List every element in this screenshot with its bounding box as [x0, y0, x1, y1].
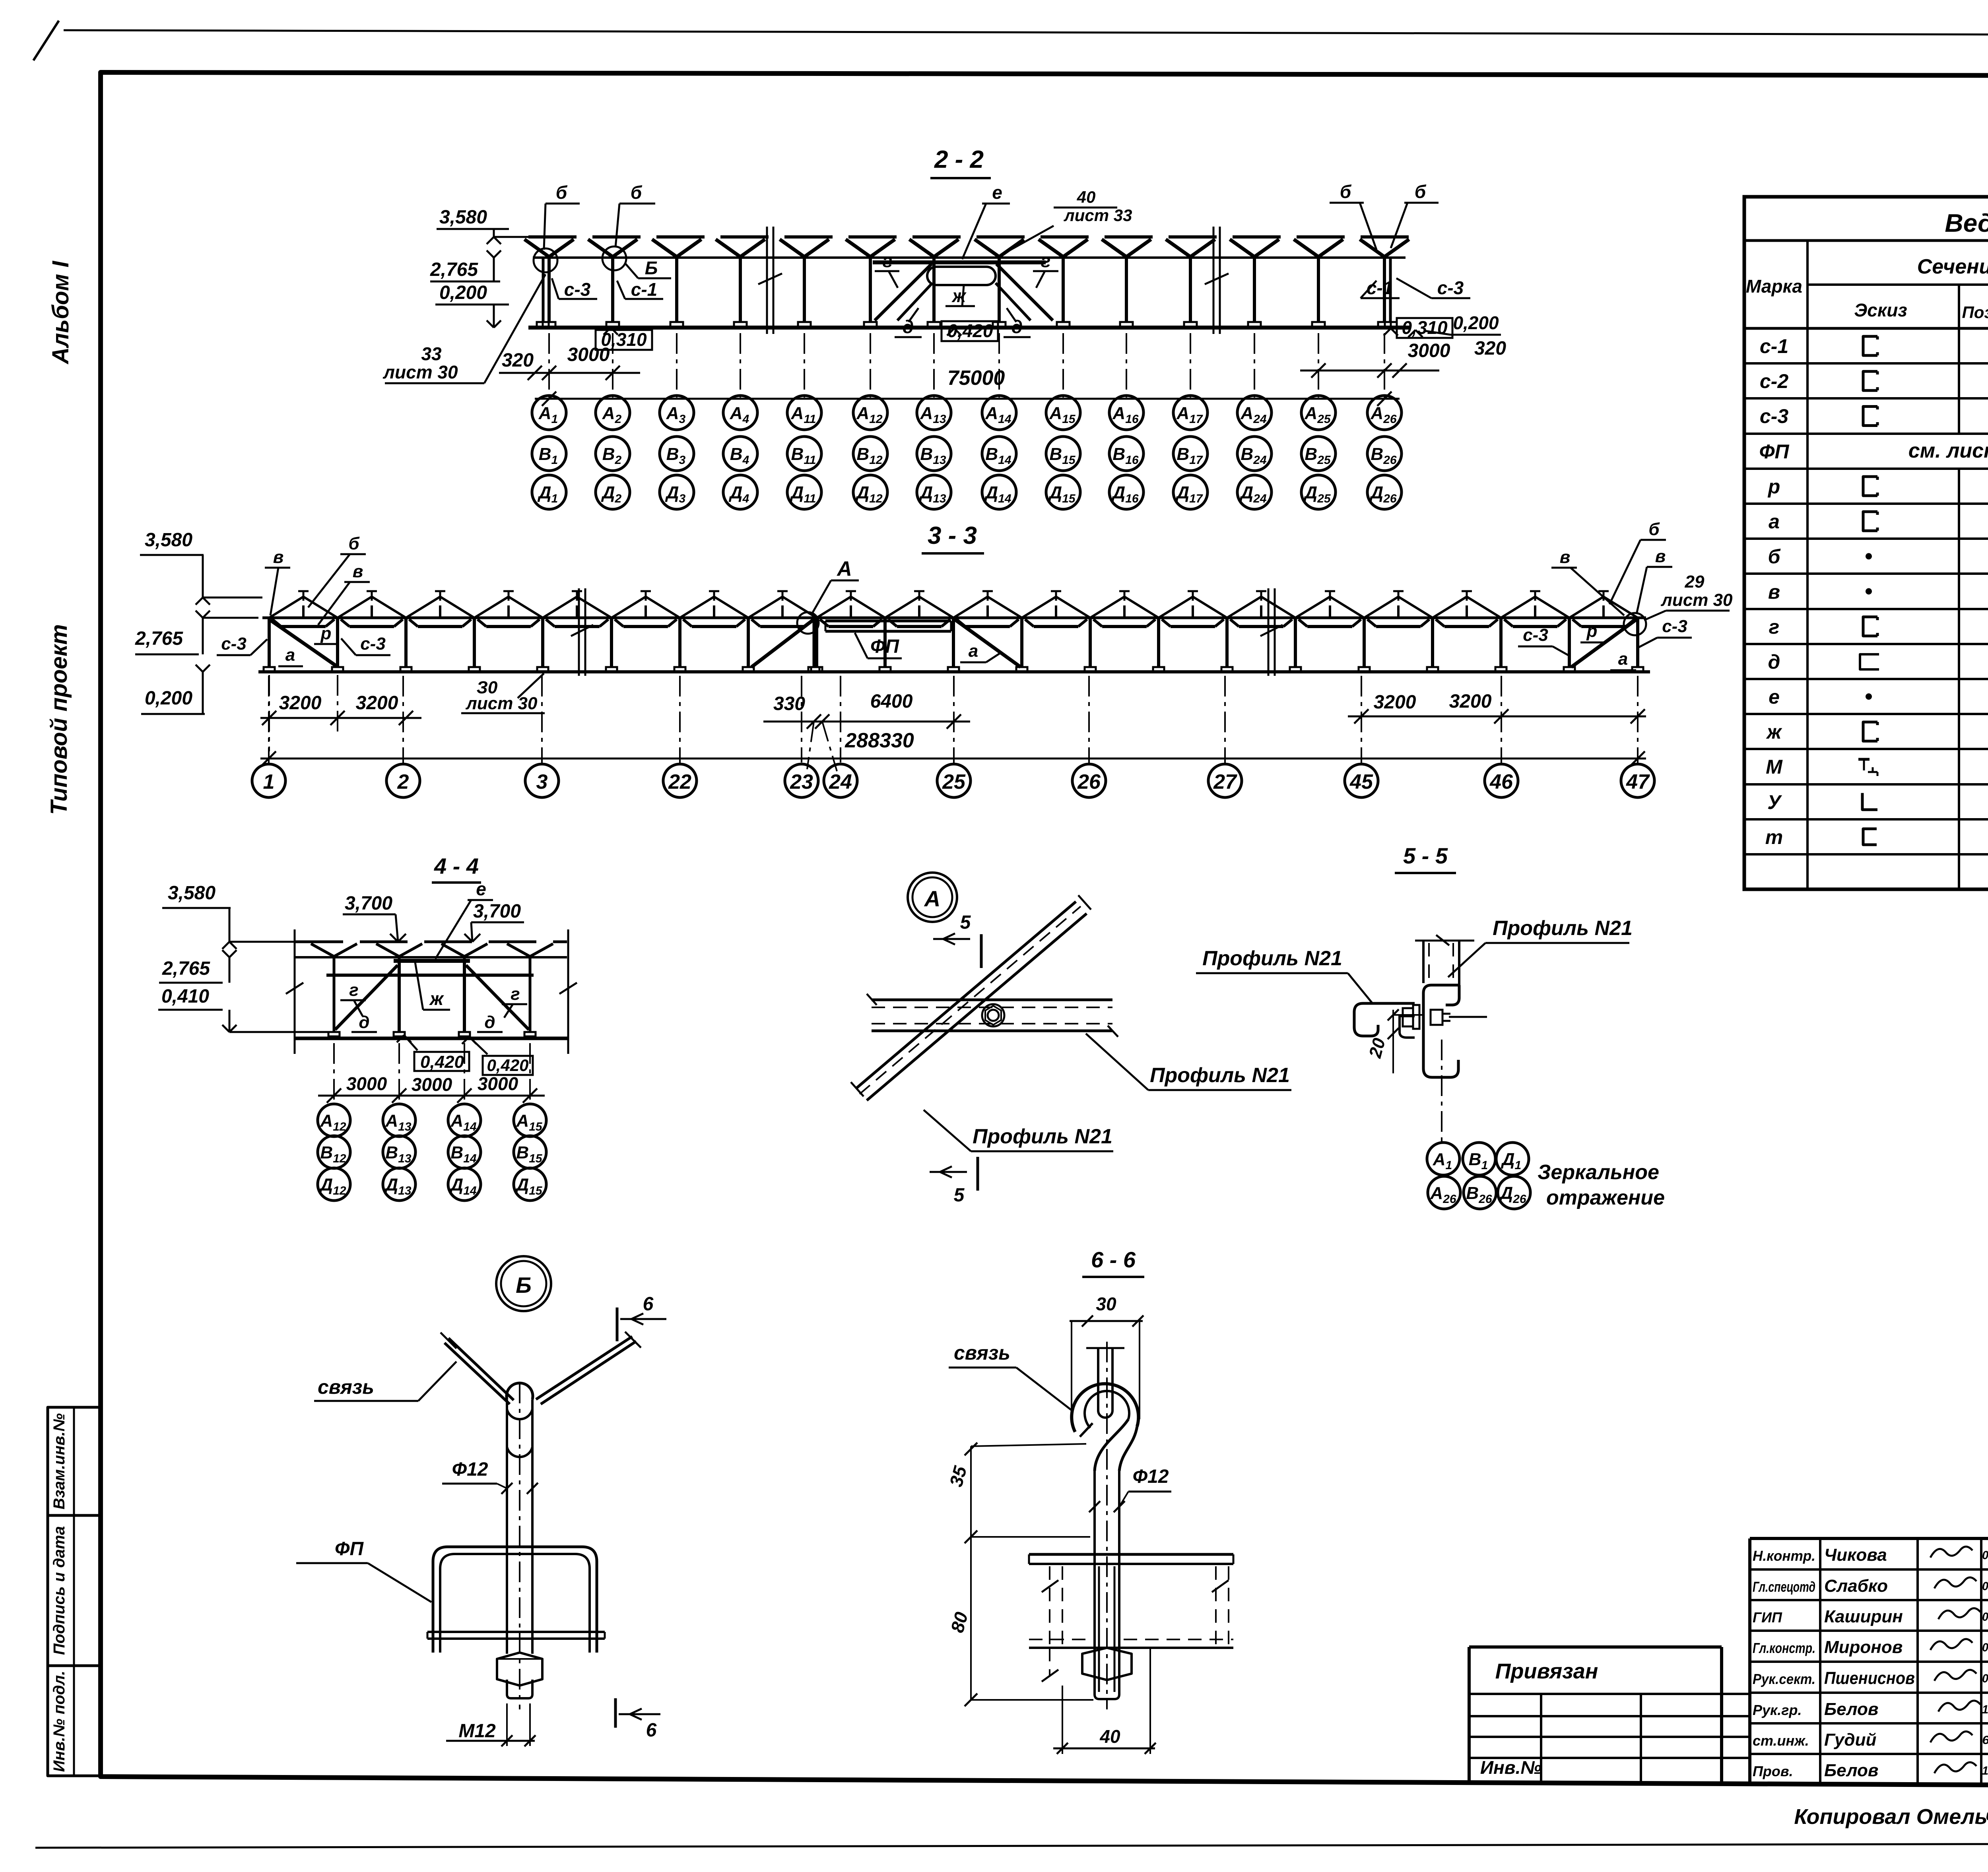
scan edge bottom line: [35, 1843, 1988, 1848]
svg-text:Инв.№ подл.: Инв.№ подл.: [50, 1671, 68, 1772]
section 4-4 elevation dim 3.580: [162, 883, 295, 949]
svg-text:ФП: ФП: [1759, 440, 1790, 463]
note kopiroval: [1794, 1805, 1988, 1829]
svg-text:08.06.83: 08.06.83: [1982, 1641, 1988, 1654]
svg-text:Каширин: Каширин: [1824, 1607, 1903, 1626]
section 6-6 dim 40: [1053, 1647, 1156, 1754]
svg-text:01.11.83: 01.11.83: [1982, 1549, 1988, 1562]
svg-text:лист 33: лист 33: [1064, 206, 1132, 225]
svg-text:1: 1: [263, 770, 275, 793]
section 2-2 label s-3 right: [1396, 277, 1470, 298]
section 5-5 label: [1395, 843, 1456, 873]
svg-text:3 - 3: 3 - 3: [928, 522, 977, 549]
svg-text:2 - 2: 2 - 2: [934, 146, 984, 173]
svg-text:Ф12: Ф12: [452, 1459, 488, 1480]
element table row в: [1768, 581, 1988, 603]
svg-text:в: в: [1655, 547, 1666, 566]
section 4-4 dim 0.420 boxes: [397, 1035, 533, 1075]
svg-text:Подпись и дата: Подпись и дата: [50, 1526, 68, 1655]
svg-text:в: в: [353, 562, 363, 581]
svg-text:б: б: [1768, 545, 1781, 568]
svg-text:с-3: с-3: [1523, 625, 1548, 645]
svg-text:Альбом I: Альбом I: [48, 260, 74, 365]
section 2-2 label s-1 right: [1361, 277, 1400, 298]
svg-text:0,420: 0,420: [487, 1056, 528, 1075]
section 6-6 label: [1082, 1247, 1144, 1277]
svg-text:24: 24: [829, 770, 852, 793]
title block signature row Пров.: [1753, 1761, 1988, 1780]
svg-text:Миронов: Миронов: [1824, 1637, 1903, 1657]
svg-text:А: А: [836, 557, 852, 580]
svg-text:б: б: [1648, 520, 1660, 539]
svg-text:Чикова: Чикова: [1824, 1545, 1887, 1565]
section 6-6 clamp section: [1029, 1554, 1233, 1682]
section 5-5 bolt: [1403, 1005, 1450, 1029]
section 2-2 top chord: [528, 235, 1409, 239]
svg-text:Марка: Марка: [1746, 276, 1802, 297]
section 6-6 label svyaz: [949, 1342, 1072, 1410]
svg-text:М: М: [1766, 756, 1783, 778]
svg-text:в: в: [273, 547, 284, 567]
section 6-6 tie wire: [1086, 1348, 1124, 1418]
svg-text:33: 33: [421, 343, 442, 364]
title block signature table: [1750, 1538, 1988, 1785]
section 4-4 label e and dims 3.700: [343, 879, 524, 959]
margin text Album I: [48, 260, 74, 365]
stamp label Inv.No podl.: [50, 1671, 68, 1772]
svg-text:г: г: [511, 984, 520, 1004]
svg-text:д: д: [359, 1013, 369, 1032]
section 2-2 middle portal beam: [873, 260, 1046, 264]
svg-text:р: р: [1767, 475, 1780, 498]
svg-text:23: 23: [790, 770, 813, 793]
section 2-2 elevation dim 3.580: [437, 207, 530, 244]
svg-text:3,580: 3,580: [439, 207, 487, 228]
section 2-2 label s-1 left: [617, 279, 663, 300]
section 4-4 elevation dim 0.410: [158, 986, 330, 1032]
svg-text:а: а: [285, 645, 295, 665]
svg-text:25: 25: [942, 770, 966, 793]
detail B label FP: [296, 1538, 431, 1602]
section 3-3 dim 3200 3200 left: [260, 675, 421, 751]
svg-text:с-3: с-3: [564, 279, 591, 300]
svg-text:4 - 4: 4 - 4: [434, 854, 479, 879]
svg-text:д: д: [903, 316, 914, 337]
svg-text:Пров.: Пров.: [1753, 1763, 1793, 1779]
detail A section mark 5 bottom: [930, 1157, 978, 1206]
detail B nut: [497, 1653, 542, 1686]
svg-text:р: р: [320, 624, 332, 643]
title block signature row ГИП: [1753, 1607, 1988, 1626]
svg-text:16.05.83: 16.05.83: [1982, 1703, 1988, 1716]
svg-text:3: 3: [536, 770, 548, 793]
svg-text:6: 6: [643, 1294, 654, 1315]
section 5-5 dim 20: [1365, 1009, 1487, 1073]
svg-text:5: 5: [960, 912, 971, 933]
svg-text:Гл.спецотд: Гл.спецотд: [1753, 1579, 1815, 1595]
svg-text:Гл.констр.: Гл.констр.: [1753, 1640, 1815, 1656]
section 2-2 dim 0.310 right: [1384, 317, 1452, 338]
scan edge top line: [64, 30, 1988, 36]
svg-text:6 - 6: 6 - 6: [1091, 1247, 1136, 1272]
svg-text:3200: 3200: [1449, 691, 1492, 712]
section 3-3 node A callout: [797, 557, 859, 634]
section 4-4 elevation dim 2.765: [159, 950, 237, 983]
svg-text:3,700: 3,700: [345, 893, 392, 914]
svg-text:3000: 3000: [567, 344, 610, 365]
element table row с-1: [1760, 335, 1988, 357]
section 6-6 dim 35: [945, 1443, 1090, 1543]
section 4-4 portal frame: [394, 961, 470, 1032]
title block attachment box: [1469, 1647, 1750, 1784]
section 2-2 dim 0.200 right: [1408, 312, 1501, 337]
detail A diagonal member: [851, 895, 1091, 1100]
element table title: [1744, 209, 1988, 241]
svg-text:3,700: 3,700: [473, 901, 521, 922]
svg-text:Гудий: Гудий: [1824, 1730, 1876, 1750]
section 2-2 leader 33 list 30: [382, 274, 546, 383]
section 2-2 element zh capsule: [927, 267, 996, 285]
element table row г: [1769, 616, 1988, 638]
section 5-5 text mirror note: [1538, 1161, 1665, 1209]
section 2-2 label s-3 left: [552, 278, 597, 300]
section 3-3 label FP: [855, 633, 902, 658]
svg-text:связь: связь: [318, 1376, 374, 1398]
svg-text:09.06.83: 09.06.83: [1982, 1610, 1988, 1624]
section 2-2 label b right 2: [1391, 181, 1439, 248]
detail B clamp FP: [427, 1547, 605, 1653]
svg-text:29: 29: [1685, 572, 1705, 592]
svg-text:отражение: отражение: [1546, 1186, 1665, 1209]
section 4-4 dims 3000: [318, 1073, 545, 1103]
svg-text:е: е: [476, 879, 486, 899]
margin text Tipovoy proekt: [46, 624, 72, 815]
svg-text:ж: ж: [429, 988, 444, 1009]
section 2-2 columns: [537, 258, 1397, 327]
section 3-3 dim 330 6400 middle: [763, 691, 970, 729]
svg-text:Привязан: Привязан: [1495, 1659, 1598, 1683]
svg-text:2,765: 2,765: [430, 259, 478, 280]
svg-text:6: 6: [646, 1720, 657, 1741]
section 2-2 label b right 1: [1330, 181, 1376, 250]
svg-text:16.05.83: 16.05.83: [1982, 1764, 1988, 1777]
section 3-3 leader 30 list 30: [461, 673, 545, 713]
title block signature row Гл.констр.: [1753, 1637, 1988, 1657]
section 6-6 dim 30: [1070, 1294, 1143, 1419]
section 3-3 columns: [264, 618, 1643, 671]
svg-text:с-3: с-3: [221, 634, 247, 654]
svg-text:г: г: [349, 980, 358, 1000]
svg-text:0,200: 0,200: [439, 282, 487, 303]
detail A horizontal member: [867, 994, 1118, 1037]
svg-text:22: 22: [668, 770, 691, 793]
svg-text:с-1: с-1: [1760, 335, 1788, 357]
svg-text:д: д: [1011, 316, 1023, 337]
svg-text:Копировал Омельченко: Копировал Омельченко: [1794, 1805, 1988, 1829]
svg-text:а: а: [1769, 510, 1780, 533]
section 2-2 grid circles row D: [532, 475, 1402, 509]
element table header grid: [1744, 241, 1988, 889]
svg-text:лист 30: лист 30: [1660, 590, 1733, 610]
section 4-4 label d left: [351, 1013, 377, 1032]
svg-text:09.06.83: 09.06.83: [1982, 1580, 1988, 1593]
svg-text:Пшениснов: Пшениснов: [1824, 1668, 1915, 1688]
section 4-4 label zh: [415, 962, 450, 1010]
svg-text:г: г: [883, 250, 893, 271]
margin stamp boxes: [48, 1407, 101, 1776]
svg-text:в: в: [1560, 547, 1571, 567]
section 4-4 label g left: [340, 980, 366, 1016]
svg-text:Профиль N21: Профиль N21: [973, 1125, 1112, 1148]
section 6-6 dim f12: [1089, 1466, 1171, 1512]
section 2-2 V-braces: [524, 239, 1409, 257]
svg-text:3000: 3000: [412, 1074, 452, 1095]
svg-text:д: д: [1768, 651, 1780, 673]
section 2-2 base line: [528, 326, 1409, 330]
element table row д: [1768, 651, 1988, 673]
section 2-2 label: [930, 146, 991, 178]
svg-text:Слабко: Слабко: [1824, 1576, 1888, 1596]
section 4-4 grid centerlines: [334, 1043, 530, 1105]
section 2-2 dim row 320 3000 left: [499, 344, 640, 380]
section 4-4 V-braces: [311, 944, 553, 956]
section 6-6 hook: [1072, 1384, 1138, 1471]
svg-text:ФП: ФП: [870, 636, 899, 657]
svg-text:ж: ж: [1766, 721, 1782, 743]
section 4-4 break marks: [286, 929, 577, 1054]
svg-text:ФП: ФП: [335, 1538, 364, 1560]
svg-text:3000: 3000: [1408, 340, 1450, 361]
svg-text:3200: 3200: [1374, 692, 1416, 713]
svg-text:А: А: [924, 886, 940, 911]
svg-text:с-3: с-3: [1662, 617, 1687, 636]
section 2-2 overall dim 75000: [535, 367, 1400, 406]
section 4-4 eave chord: [295, 956, 567, 958]
section 5-5 centerline: [1441, 1040, 1442, 1145]
element table row ФП: [1759, 439, 1988, 463]
svg-text:т: т: [1765, 826, 1783, 848]
svg-text:320: 320: [1474, 338, 1506, 359]
svg-text:06.06.83: 06.06.83: [1982, 1672, 1988, 1685]
section 2-2 break marks: [758, 227, 1229, 334]
title block signature row ст.инж.: [1753, 1730, 1988, 1750]
section 2-2 portal diagonals: [875, 264, 1053, 320]
stamp label Podpis i data: [50, 1526, 68, 1655]
svg-text:0,200: 0,200: [1453, 312, 1499, 333]
section 2-2 dim 0.310 left: [596, 328, 652, 350]
svg-text:288330: 288330: [845, 729, 914, 752]
detail B rod: [507, 1383, 532, 1709]
detail A bolt: [982, 1004, 1004, 1026]
section 2-2 elevation dim 2.765: [430, 250, 501, 281]
svg-text:6400: 6400: [870, 691, 913, 712]
detail A label Profil N21 lower: [924, 1110, 1113, 1151]
section 4-4 tie beam: [326, 974, 534, 977]
section 3-3 elevation dim 3.580: [140, 530, 262, 605]
detail B callout circle: [496, 1256, 551, 1311]
element table row с-3: [1760, 405, 1988, 427]
svg-text:45: 45: [1349, 770, 1373, 793]
svg-text:3,580: 3,580: [168, 883, 215, 904]
svg-text:с-3: с-3: [1437, 277, 1464, 298]
element table row р: [1767, 475, 1988, 498]
section 4-4 columns: [328, 957, 536, 1036]
section 3-3 overall dim 288330: [260, 729, 1646, 766]
stamp label Vzam.inv.No: [50, 1413, 68, 1509]
svg-text:46: 46: [1489, 770, 1513, 793]
svg-text:Белов: Белов: [1824, 1699, 1878, 1719]
svg-text:Рук.гр.: Рук.гр.: [1753, 1702, 1802, 1718]
svg-text:0,410: 0,410: [161, 986, 209, 1007]
svg-text:320: 320: [502, 350, 534, 371]
svg-text:Эскиз: Эскиз: [1854, 300, 1907, 320]
svg-text:47: 47: [1626, 770, 1650, 793]
detail B section mark 6 bottom: [615, 1698, 660, 1741]
element table row а: [1769, 510, 1988, 533]
svg-text:3200: 3200: [356, 693, 398, 714]
svg-text:Н.контр.: Н.контр.: [1753, 1548, 1815, 1564]
section 5-5 label Profil N21 left: [1196, 947, 1373, 1003]
section 5-5 label Profil N21 right: [1448, 917, 1633, 977]
svg-text:40: 40: [1077, 188, 1096, 206]
svg-text:Ведомость элементов: Ведомость элементов: [1945, 209, 1988, 237]
svg-text:с-3: с-3: [360, 634, 386, 654]
element table row М: [1766, 756, 1988, 778]
section 4-4 grid circles: [318, 1104, 546, 1201]
section 5-5 channel C right: [1423, 985, 1459, 1077]
svg-text:3200: 3200: [279, 693, 322, 714]
detail A callout circle: [908, 873, 957, 922]
section 4-4 label g right: [502, 984, 527, 1018]
section 2-2 label g right: [1033, 250, 1058, 288]
svg-text:0,310: 0,310: [1402, 317, 1448, 338]
section 4-4 label: [432, 854, 481, 883]
svg-text:е: е: [992, 182, 1002, 203]
svg-text:Профиль N21: Профиль N21: [1493, 917, 1633, 940]
svg-text:2,765: 2,765: [135, 628, 183, 649]
svg-text:Белов: Белов: [1824, 1761, 1878, 1780]
svg-text:связь: связь: [954, 1342, 1010, 1364]
section 2-2 eave chord: [533, 256, 1406, 259]
svg-text:лист 30: лист 30: [465, 694, 538, 713]
svg-text:Ф12: Ф12: [1133, 1466, 1169, 1487]
detail B rod loop: [507, 1383, 533, 1399]
element table row ж: [1766, 721, 1988, 743]
section 2-2 label g left: [875, 250, 899, 288]
svg-text:ст.инж.: ст.инж.: [1753, 1732, 1809, 1749]
section 2-2 label d left: [895, 308, 922, 337]
section 2-2 dim row 3000 320 right: [1300, 338, 1506, 378]
svg-text:0,420: 0,420: [420, 1052, 464, 1072]
section 4-4 top chord: [295, 941, 567, 943]
svg-text:б: б: [1340, 181, 1352, 202]
svg-text:Сечение: Сечение: [1917, 255, 1988, 278]
section 3-3 FP sub-truss band: [825, 621, 951, 631]
svg-text:с-2: с-2: [1760, 370, 1788, 392]
element table row е: [1769, 686, 1988, 708]
svg-text:лист 30: лист 30: [382, 362, 458, 382]
svg-text:2,765: 2,765: [162, 958, 210, 979]
element table column lines body: [1959, 328, 1988, 889]
svg-text:0,200: 0,200: [145, 688, 192, 709]
section 3-3 ground line: [258, 670, 1650, 673]
scan corner slash top-left: [33, 21, 59, 60]
svg-text:д: д: [484, 1013, 495, 1032]
svg-text:75000: 75000: [947, 367, 1005, 390]
svg-text:Профиль N21: Профиль N21: [1150, 1064, 1290, 1087]
section 2-2 dim 0.420 middle: [942, 320, 998, 341]
svg-text:р: р: [1586, 621, 1598, 641]
svg-text:Поз.: Поз.: [1962, 303, 1988, 322]
svg-text:5 - 5: 5 - 5: [1403, 843, 1448, 868]
section 3-3 break marks: [571, 588, 1283, 676]
svg-text:3000: 3000: [346, 1073, 387, 1094]
element table outer border: [1744, 197, 1988, 889]
section 2-2 label d right: [1004, 308, 1031, 337]
section 3-3 label a mid: [960, 641, 1002, 662]
svg-text:б: б: [631, 182, 643, 203]
svg-text:Взам.инв.№: Взам.инв.№: [50, 1413, 68, 1509]
section 3-3 grid centerlines: [269, 676, 1638, 771]
svg-text:Инв.№: Инв.№: [1480, 1757, 1541, 1778]
element table row У: [1767, 791, 1988, 813]
svg-text:У: У: [1767, 791, 1782, 813]
svg-text:с-1: с-1: [631, 279, 657, 300]
detail B Y arms: [441, 1332, 641, 1404]
svg-text:ГИП: ГИП: [1753, 1609, 1782, 1626]
title block signature row Рук.сект.: [1753, 1668, 1988, 1688]
section 3-3 grid circles: [252, 764, 1654, 797]
section 2-2 node callout circles: [534, 246, 626, 272]
detail B section mark 6 top: [617, 1294, 666, 1341]
svg-text:40: 40: [1099, 1726, 1120, 1747]
section 3-3 brace diagonals: [270, 619, 1637, 667]
title block signature row Н.контр.: [1753, 1545, 1988, 1565]
section 2-2 label B callout: [625, 258, 671, 278]
section 6-6 rod: [1095, 1342, 1119, 1709]
svg-text:б: б: [1415, 181, 1427, 202]
svg-text:Рук.сект.: Рук.сект.: [1753, 1671, 1815, 1687]
section 4-4 diagonals: [335, 965, 529, 1030]
detail B dim M12: [446, 1703, 536, 1746]
svg-text:0,420: 0,420: [947, 320, 993, 341]
svg-text:см. лист КМ-17: см. лист КМ-17: [1908, 439, 1988, 462]
element table row с-2: [1760, 370, 1988, 392]
section 3-3 dim 3200 3200 right: [1348, 691, 1646, 724]
svg-text:а: а: [969, 641, 978, 661]
section 3-3 labels right end: [1518, 520, 1733, 670]
svg-text:30: 30: [1096, 1294, 1116, 1314]
detail A label Profil N21 upper: [1086, 1034, 1291, 1090]
section 3-3 elevation dim 2.765: [135, 611, 258, 654]
section 3-3 gable roof units: [269, 591, 1638, 627]
svg-text:5: 5: [954, 1185, 965, 1206]
section 2-2 elevation dim 0.200: [435, 282, 509, 328]
svg-text:б: б: [556, 182, 568, 203]
section 3-3 eave line: [262, 617, 1646, 619]
svg-text:6.05.83: 6.05.83: [1982, 1734, 1988, 1747]
svg-text:330: 330: [773, 693, 805, 714]
element table header texts: [1746, 254, 1988, 326]
section 2-2 label b left 1: [544, 182, 580, 250]
svg-text:в: в: [1768, 581, 1780, 603]
svg-text:Типовой проект: Типовой проект: [46, 624, 72, 815]
svg-text:Зеркальное: Зеркальное: [1538, 1161, 1659, 1184]
section 3-3 labels left end: [217, 534, 390, 666]
detail B dim f12: [442, 1459, 538, 1494]
svg-text:Б: Б: [516, 1273, 532, 1298]
detail A section mark 5 top: [933, 912, 981, 968]
